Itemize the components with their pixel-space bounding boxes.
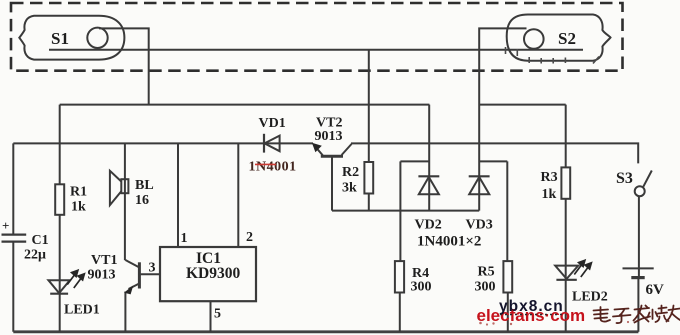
svg-text:R3: R3	[541, 170, 558, 185]
svg-text:1k: 1k	[71, 200, 86, 215]
svg-text:S2: S2	[558, 29, 576, 48]
svg-text:R2: R2	[342, 165, 359, 180]
svg-text:BL: BL	[135, 178, 154, 193]
svg-text:3: 3	[149, 261, 156, 276]
svg-text:9013: 9013	[315, 129, 343, 144]
svg-text:16: 16	[135, 193, 149, 208]
svg-text:+: +	[2, 218, 9, 233]
svg-text:6V: 6V	[646, 282, 665, 298]
svg-text:S1: S1	[51, 29, 69, 48]
svg-text:VT1: VT1	[91, 253, 117, 268]
svg-text:VD2: VD2	[415, 218, 442, 233]
svg-text:3k: 3k	[342, 181, 357, 196]
svg-text:9013: 9013	[88, 268, 116, 283]
svg-text:1N4001: 1N4001	[249, 160, 297, 175]
svg-text:C1: C1	[32, 233, 49, 248]
svg-text:2: 2	[246, 230, 253, 245]
svg-text:KD9300: KD9300	[186, 265, 241, 282]
svg-text:VD3: VD3	[466, 218, 493, 233]
svg-text:LED1: LED1	[64, 303, 100, 318]
svg-text:5: 5	[214, 307, 221, 322]
svg-text:300: 300	[475, 280, 496, 295]
svg-text:22μ: 22μ	[24, 248, 46, 263]
svg-text:VD1: VD1	[259, 116, 286, 131]
svg-text:1k: 1k	[542, 187, 557, 202]
svg-text:1N4001×2: 1N4001×2	[417, 234, 481, 250]
svg-text:R5: R5	[478, 265, 495, 280]
svg-text:300: 300	[411, 280, 432, 295]
svg-text:1: 1	[181, 231, 188, 246]
svg-text:S3: S3	[616, 170, 633, 187]
svg-text:LED2: LED2	[572, 290, 608, 305]
svg-text:ybx8.cn: ybx8.cn	[499, 298, 564, 315]
svg-text:R1: R1	[70, 185, 87, 200]
